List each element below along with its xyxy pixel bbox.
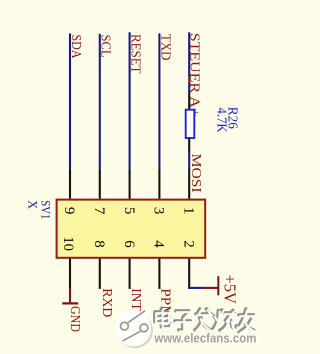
connector SV1 body bbox=[57, 200, 206, 258]
svg-text:www.elecfans.com: www.elecfans.com bbox=[153, 331, 256, 345]
svg-text:8: 8 bbox=[91, 240, 107, 248]
svg-text:6: 6 bbox=[121, 240, 137, 248]
svg-text:10: 10 bbox=[60, 236, 76, 251]
pin 6 lead bbox=[129, 259, 131, 289]
ground bar bbox=[62, 302, 78, 304]
watermark text 电子发烧友 bbox=[155, 309, 255, 333]
svg-text:X: X bbox=[26, 200, 41, 209]
svg-text:INT: INT bbox=[128, 288, 143, 311]
pin 9 lead bbox=[69, 168, 71, 198]
svg-text:+5V: +5V bbox=[221, 274, 240, 304]
resistor R26 body bbox=[186, 110, 195, 138]
wire bbox=[188, 84, 190, 93]
wire SCL net bbox=[99, 34, 101, 169]
wire SDA net bbox=[69, 33, 71, 168]
svg-text:RXD: RXD bbox=[99, 288, 114, 317]
pin 8 lead bbox=[99, 259, 101, 289]
wire TXD net bbox=[158, 33, 160, 168]
svg-text:2: 2 bbox=[181, 240, 197, 248]
svg-text:TXD: TXD bbox=[158, 34, 173, 61]
wire +5V net bbox=[188, 287, 203, 289]
watermark logo circle bbox=[116, 306, 153, 349]
+5V supply lead bbox=[203, 287, 218, 289]
svg-text:5: 5 bbox=[121, 207, 137, 215]
svg-text:3: 3 bbox=[151, 207, 167, 215]
wire MOSI net bbox=[188, 152, 190, 169]
pin 3 lead bbox=[158, 168, 160, 198]
svg-text:9: 9 bbox=[61, 207, 77, 215]
pin 7 lead bbox=[99, 168, 101, 198]
pin 5 lead bbox=[129, 168, 131, 198]
resistor R26 bottom lead bbox=[188, 138, 190, 152]
+5V supply bar bbox=[217, 276, 219, 295]
pin 1 lead bbox=[188, 169, 190, 199]
svg-text:SCL: SCL bbox=[98, 35, 113, 58]
svg-text:7: 7 bbox=[91, 207, 107, 215]
svg-text:GND: GND bbox=[67, 306, 82, 332]
wire RESET net bbox=[129, 32, 131, 168]
watermark url www.elecfans.com bbox=[153, 331, 257, 346]
svg-text:RESET: RESET bbox=[128, 34, 143, 74]
pin 4 lead bbox=[158, 259, 160, 289]
resistor R26 top lead bbox=[188, 93, 190, 110]
svg-text:SDA: SDA bbox=[68, 35, 83, 60]
svg-text:4: 4 bbox=[151, 240, 167, 248]
ground lead bbox=[69, 289, 71, 303]
pin 10 lead bbox=[69, 259, 71, 289]
pin end mark bbox=[188, 77, 190, 83]
pin 2 lead bbox=[188, 259, 190, 289]
svg-text:1: 1 bbox=[181, 207, 197, 215]
svg-text:4.7K: 4.7K bbox=[214, 108, 229, 133]
wire STEUER A+ net bbox=[188, 32, 190, 77]
